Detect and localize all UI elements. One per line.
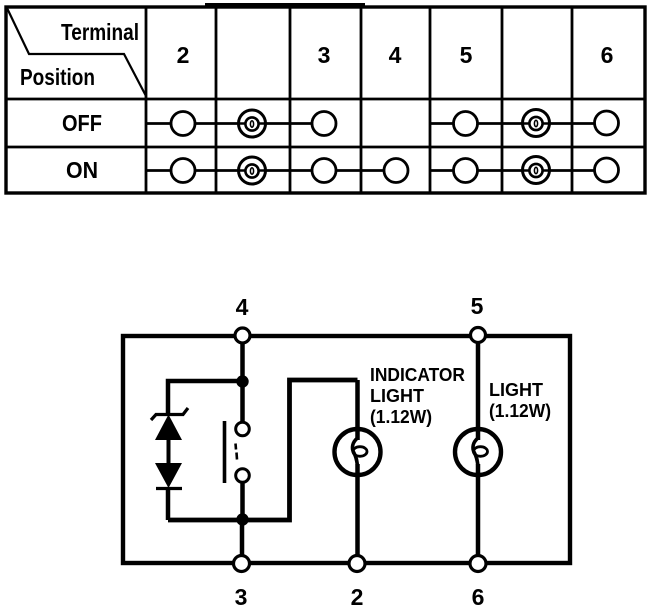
terminal 3	[234, 556, 250, 572]
wire between diodes	[167, 440, 171, 463]
svg-text:OFF: OFF	[62, 110, 102, 136]
terminal 4	[235, 328, 250, 343]
svg-text:2: 2	[177, 42, 190, 68]
contact ON terminal 6	[595, 158, 619, 182]
zener diode D1 bar	[151, 408, 188, 420]
ON row connector 2-4	[146, 169, 396, 172]
switch SW1 top contact	[236, 422, 250, 436]
lamp contact ON right	[523, 157, 550, 184]
contact ON terminal 4	[384, 159, 408, 183]
wire light to terminal 6	[476, 464, 481, 563]
terminal 6	[470, 556, 486, 572]
svg-text:6: 6	[472, 584, 485, 610]
wire lower junction to terminal 3	[240, 520, 245, 563]
svg-text:INDICATOR: INDICATOR	[370, 365, 465, 385]
diode D2 bar	[156, 487, 182, 490]
contact OFF terminal 3	[312, 112, 336, 136]
contact OFF terminal 5	[454, 112, 478, 136]
svg-text:ON: ON	[66, 157, 98, 183]
svg-text:2: 2	[351, 584, 364, 610]
svg-text:5: 5	[460, 42, 473, 68]
svg-text:6: 6	[601, 42, 614, 68]
table grid vertical lines	[146, 7, 572, 193]
svg-text:(1.12W): (1.12W)	[370, 407, 432, 427]
indicator lamp L1 filament	[352, 438, 367, 466]
OFF row connector 5-6	[430, 122, 607, 125]
light L2 filament	[473, 438, 488, 466]
terminal 5	[471, 328, 486, 343]
header diagonal divider	[7, 8, 146, 96]
label LIGHT	[489, 380, 551, 421]
contact OFF terminal 2	[171, 112, 195, 136]
lamp contact OFF left	[239, 110, 266, 137]
table outer border	[6, 7, 645, 193]
svg-text:3: 3	[318, 42, 331, 68]
table row lines	[6, 99, 645, 147]
zener diode D1 triangle	[155, 415, 182, 441]
label INDICATOR LIGHT	[370, 365, 465, 427]
svg-text:(1.12W): (1.12W)	[489, 401, 551, 421]
wire terminal 4 to switch	[240, 336, 245, 423]
circuit outer box	[123, 336, 570, 563]
contact ON terminal 2	[171, 159, 195, 183]
wire indicator branch upper	[355, 380, 360, 440]
wire diode branch top	[168, 381, 243, 413]
diode D2 triangle	[155, 463, 182, 488]
wire diode to bottom rail	[166, 489, 171, 521]
wire L-shape to indicator branch	[243, 380, 358, 520]
wire switch to lower junction	[240, 482, 245, 520]
switch SW1 bottom contact	[236, 469, 250, 483]
junction node lower	[236, 513, 248, 525]
wire indicator branch lower	[355, 464, 360, 563]
lamp contact OFF right	[523, 110, 550, 137]
table top border scan smudge	[205, 3, 365, 8]
junction node upper	[236, 375, 248, 387]
wire diode branch bottom	[168, 518, 243, 523]
svg-text:LIGHT: LIGHT	[370, 386, 424, 406]
svg-text:4: 4	[389, 42, 402, 68]
switch SW1 actuator bar	[223, 421, 227, 483]
svg-text:5: 5	[471, 293, 484, 319]
wire terminal 5 to light	[476, 336, 481, 440]
lamp contact ON left	[239, 157, 266, 184]
contact ON terminal 3	[312, 159, 336, 183]
switch SW1 link dashes	[236, 444, 238, 460]
svg-text:3: 3	[235, 584, 248, 610]
svg-text:Terminal: Terminal	[61, 19, 139, 45]
svg-text:4: 4	[236, 294, 249, 320]
OFF row connector 2-3	[146, 122, 324, 125]
terminal 2	[349, 556, 365, 572]
svg-text:LIGHT: LIGHT	[489, 380, 543, 400]
contact OFF terminal 6	[595, 111, 619, 135]
svg-text:Position: Position	[20, 64, 95, 90]
contact ON terminal 5	[454, 159, 478, 183]
ON row connector 5-6	[430, 169, 607, 172]
indicator lamp L1 body	[335, 429, 381, 475]
light L2 body	[455, 429, 501, 475]
